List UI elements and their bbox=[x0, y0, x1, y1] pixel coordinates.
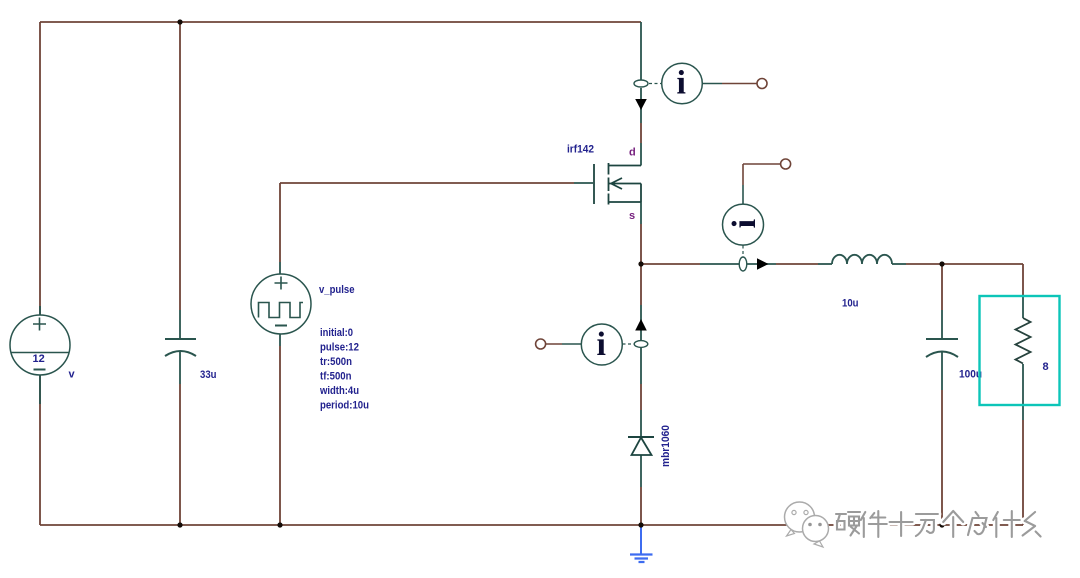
lead gate bbox=[574, 182, 593, 184]
svg-text:8: 8 bbox=[1043, 361, 1049, 373]
resistor R1 zigzag bbox=[1016, 318, 1031, 364]
probe AM3 circle bbox=[581, 324, 622, 365]
ground lead bbox=[640, 525, 642, 554]
mosfet body arrow bbox=[609, 178, 642, 189]
voltage source V1 plus sign bbox=[33, 318, 46, 331]
ground bars bbox=[630, 555, 653, 563]
svg-text:initial:0: initial:0 bbox=[320, 327, 353, 339]
lead resistor top bbox=[1022, 296, 1024, 318]
watermark logo small bubble bbox=[803, 516, 829, 548]
junction dot bottom v_pulse bbox=[277, 522, 282, 527]
lead source v top bbox=[39, 306, 41, 315]
diode mbr1060 triangle bbox=[632, 438, 652, 456]
wire diode branch upper bbox=[640, 264, 642, 305]
wire drain vertical mid bbox=[640, 88, 642, 123]
svg-text:i: i bbox=[677, 65, 686, 102]
probe AM2 terminal bbox=[781, 159, 791, 169]
probe AM1 ellipse bbox=[634, 80, 648, 87]
probe AM3 lead teal bbox=[562, 343, 581, 345]
svg-text:width:4u: width:4u bbox=[319, 385, 359, 397]
lead diode top bbox=[640, 410, 642, 437]
voltage source V1 chord line bbox=[11, 352, 69, 354]
lead v_pulse bottom bbox=[279, 334, 281, 346]
svg-text:i: i bbox=[726, 219, 763, 228]
lead drain bbox=[640, 143, 642, 166]
arrow drain current down bbox=[635, 99, 647, 110]
wire load branch lower bbox=[1022, 420, 1024, 525]
capacitor C1 33u curved plate bbox=[165, 351, 196, 356]
lead source v bottom bbox=[39, 375, 41, 404]
probe AM3 terminal bbox=[536, 339, 546, 349]
arrow diode current up bbox=[635, 319, 647, 331]
junction dot top 33u bbox=[177, 19, 182, 24]
diode mbr1060 cathode bar bbox=[628, 436, 654, 438]
wire source to node bbox=[640, 224, 642, 264]
wire below probe ellipse bbox=[640, 348, 642, 384]
pulse source minus sign bbox=[275, 325, 287, 327]
arrow inductor current right bbox=[757, 258, 769, 269]
wire load branch upper bbox=[1022, 264, 1024, 296]
svg-text:12: 12 bbox=[33, 353, 45, 365]
selection box cyan bbox=[980, 296, 1060, 405]
probe AM2 circle bbox=[723, 204, 764, 245]
junction dot bottom diode bbox=[638, 522, 643, 527]
lead mosfet source bbox=[640, 202, 642, 224]
probe AM3 ellipse bbox=[634, 341, 648, 348]
pulse source plus sign bbox=[275, 277, 288, 290]
wire v_pulse top vertical bbox=[279, 183, 281, 262]
wire gate horizontal bbox=[280, 182, 574, 184]
svg-text:pulse:12: pulse:12 bbox=[320, 342, 359, 354]
watermark text 硬件十万个为什么 bbox=[836, 511, 1041, 537]
lead resistor bottom bbox=[1022, 364, 1024, 420]
wire left vertical bbox=[39, 22, 41, 525]
mosfet channel segments bbox=[608, 163, 610, 205]
mosfet irf142 gate plate bbox=[593, 164, 595, 204]
watermark logo big bubble bbox=[785, 502, 815, 536]
probe AM3 lead brown bbox=[546, 343, 562, 345]
svg-text:mbr1060: mbr1060 bbox=[660, 425, 672, 467]
wire 100u branch upper bbox=[941, 264, 943, 310]
probe AM1 lead brown bbox=[722, 83, 757, 85]
junction dot bottom 100u bbox=[939, 522, 944, 527]
lead 100u bottom bbox=[941, 352, 943, 390]
inductor L1 10u bbox=[832, 255, 892, 264]
junction dot inductor out bbox=[939, 261, 944, 266]
probe AM2 dashed link bbox=[742, 246, 744, 258]
wire 33u branch upper bbox=[179, 22, 181, 310]
svg-text:i: i bbox=[597, 326, 606, 363]
lead inductor right bbox=[892, 263, 906, 265]
wire top horizontal bbox=[40, 21, 641, 23]
probe AM1 circle bbox=[662, 63, 703, 104]
wire probe region bbox=[700, 263, 776, 265]
svg-text:v_pulse: v_pulse bbox=[319, 284, 355, 296]
wire to inductor bbox=[776, 263, 818, 265]
lead 100u top bbox=[941, 310, 943, 339]
wire switch node to probe bbox=[641, 263, 700, 265]
lead diode bottom bbox=[640, 455, 642, 487]
svg-text:tf:500n: tf:500n bbox=[320, 371, 352, 383]
lead 33u cap top bbox=[179, 310, 181, 339]
probe AM3 dashed link bbox=[623, 343, 636, 345]
lead v_pulse top bbox=[279, 262, 281, 274]
svg-text:v: v bbox=[69, 369, 76, 381]
svg-text:33u: 33u bbox=[200, 369, 217, 381]
junction dot bottom 33u bbox=[177, 522, 182, 527]
junction dot switch node bbox=[638, 261, 643, 266]
probe AM2 ellipse bbox=[739, 257, 747, 271]
svg-text:period:10u: period:10u bbox=[320, 400, 369, 412]
wire to diode bbox=[640, 384, 642, 410]
probe AM2 lead horizontal bbox=[743, 163, 781, 165]
pulse source v_pulse circle bbox=[251, 274, 311, 334]
wire diode to bottom bbox=[640, 487, 642, 525]
voltage source V1 circle bbox=[10, 315, 70, 375]
probe AM1 dashed link bbox=[649, 83, 661, 85]
probe AM2 lead vertical teal bbox=[742, 185, 744, 204]
svg-text:d: d bbox=[629, 147, 636, 159]
svg-text:tr:500n: tr:500n bbox=[320, 356, 352, 368]
wire v_pulse bottom vertical bbox=[279, 346, 281, 525]
probe AM2 lead vertical brown bbox=[742, 164, 744, 185]
svg-text:irf142: irf142 bbox=[567, 144, 594, 156]
mosfet body-source join bbox=[609, 184, 642, 203]
wire drain vertical upper bbox=[640, 22, 642, 80]
capacitor C2 100u curved plate bbox=[926, 352, 958, 358]
lead inductor left bbox=[818, 263, 832, 265]
capacitor C2 100u top plate bbox=[926, 338, 958, 340]
wire 33u branch lower bbox=[179, 384, 181, 525]
probe AM1 terminal bbox=[757, 79, 767, 89]
wire 100u branch lower bbox=[941, 390, 943, 525]
wire diode probe region bbox=[640, 305, 642, 340]
lead 33u cap bottom bbox=[179, 352, 181, 384]
wire bottom horizontal bbox=[40, 524, 1023, 526]
svg-text:s: s bbox=[629, 210, 635, 222]
mosfet drain lead bbox=[609, 165, 642, 167]
wire inductor to load bbox=[906, 263, 1023, 265]
svg-text:10u: 10u bbox=[842, 298, 859, 310]
wire drain brown segment bbox=[640, 123, 642, 143]
capacitor C1 33u top plate bbox=[165, 338, 196, 340]
pulse source square wave bbox=[259, 303, 304, 318]
voltage source V1 minus sign bbox=[34, 369, 46, 371]
probe AM1 lead bbox=[702, 83, 722, 85]
